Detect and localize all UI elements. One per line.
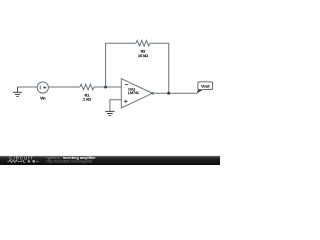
wire feedback up and to R2 [106,43,136,87]
svg-text:LAB: LAB [23,159,37,163]
wire op-amp output to Vout flag [154,92,197,94]
footer url text [47,160,93,164]
voltage source V1 Vin [37,82,48,93]
svg-text:http://circuitlab.com/c/pjgw6s: http://circuitlab.com/c/pjgw6s [47,160,93,164]
wire Vin to R1 [48,86,80,88]
wire R2 to output node [150,43,169,93]
svg-text:LM741: LM741 [128,91,139,95]
node flag Vout [197,82,213,94]
wire R1 to op-amp inverting input [94,86,121,88]
junction node output (feedback / output) [167,92,170,95]
ground GND2 (op-amp + input) [105,111,114,115]
ground GND1 (input side) [13,87,22,97]
wire op-amp noninverting input to ground [110,100,121,112]
junction node A (R1 / feedback) [104,86,107,89]
svg-text:Vin: Vin [40,97,45,101]
op-amp OA1 LM741 [121,79,152,108]
svg-text:10 kΩ: 10 kΩ [138,54,148,58]
resistor R2 [136,40,150,46]
footer bar [0,156,220,165]
resistor R1 [80,84,94,90]
op-amp output terminal circle [152,92,154,94]
wire ground to Vin source [18,86,38,88]
footer title text [47,156,97,160]
CircuitLab logo [7,156,38,164]
svg-text:Vout: Vout [201,84,210,89]
svg-text:1 kΩ: 1 kΩ [83,98,91,102]
